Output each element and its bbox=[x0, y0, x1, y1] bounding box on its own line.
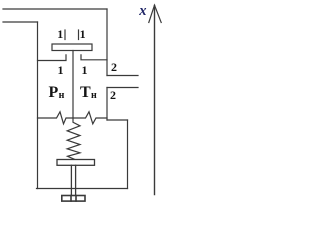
axis arrowhead bbox=[149, 5, 161, 22]
wire: top channel upper wall bbox=[3, 8, 107, 10]
svg-text:x: x bbox=[138, 3, 146, 19]
wire: right wall upper segment bbox=[106, 9, 108, 76]
rod: anchor stem left line bbox=[70, 165, 72, 195]
wire: right wall lower segment bbox=[106, 88, 108, 121]
svg-text:Tн: Tн bbox=[80, 84, 97, 101]
node: seat edge right (port 1 top) bbox=[78, 30, 80, 40]
wire: right shelf bbox=[81, 55, 107, 60]
svg-text:1: 1 bbox=[80, 27, 86, 41]
wire: port 2 channel lower wall bbox=[107, 87, 138, 89]
svg-text:2: 2 bbox=[110, 88, 116, 102]
wire: top channel lower wall bbox=[3, 21, 38, 23]
wire: lower right wall bbox=[127, 120, 129, 189]
anchor foot bbox=[62, 196, 85, 202]
svg-text:1: 1 bbox=[57, 27, 63, 41]
bottom plate B2 bbox=[57, 160, 95, 166]
membrane M1 (line with zigzag breaks) bbox=[38, 112, 108, 124]
node: seat edge left (port 1 top) bbox=[64, 30, 66, 40]
svg-text:Pн: Pн bbox=[49, 84, 65, 101]
axis shaft bbox=[154, 6, 156, 195]
svg-text:1: 1 bbox=[58, 63, 64, 77]
spring S1 bbox=[67, 118, 80, 159]
rod: plate stem bbox=[72, 51, 74, 119]
valve plate B1 bbox=[52, 44, 92, 51]
wire: left shelf bbox=[38, 55, 67, 61]
svg-text:1: 1 bbox=[82, 63, 88, 77]
rod: anchor stem right line bbox=[75, 165, 77, 195]
svg-text:2: 2 bbox=[111, 60, 117, 74]
wire: port 2 channel upper wall bbox=[107, 75, 138, 77]
wire: bottom wall bbox=[37, 188, 128, 190]
wire: right step bbox=[107, 119, 128, 121]
wire: left wall bbox=[37, 22, 39, 189]
